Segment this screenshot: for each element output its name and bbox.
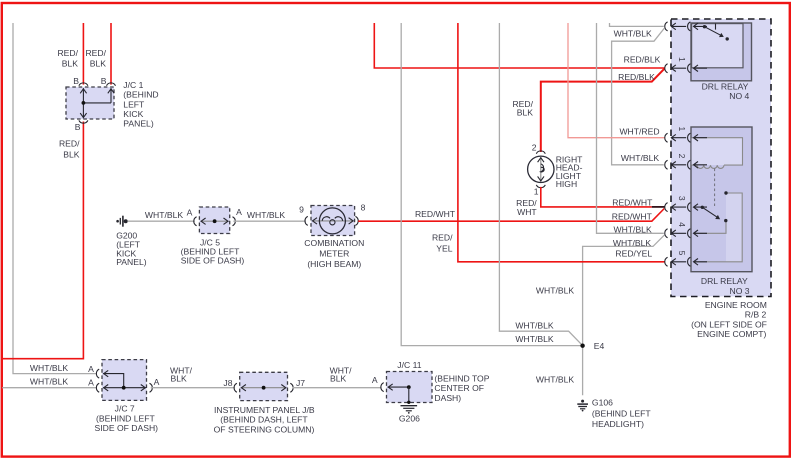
- junction connector J/C 7: [96, 360, 152, 401]
- wire RED/BLK page-top to J/C1 pin B1: [57, 23, 83, 86]
- svg-text:A: A: [372, 375, 378, 385]
- relay3 pin 3 connector: [665, 196, 707, 212]
- svg-text:WHT/BLK: WHT/BLK: [515, 334, 553, 344]
- svg-text:RED/WHT: RED/WHT: [415, 209, 456, 219]
- wire RED/WHT right headlight to relay3 pin3: [516, 187, 665, 217]
- svg-text:BLK: BLK: [63, 149, 80, 159]
- DRL relay NO 3 box: [691, 127, 752, 296]
- svg-text:PANEL): PANEL): [123, 119, 154, 129]
- svg-text:(BEHIND LEFT: (BEHIND LEFT: [592, 408, 651, 418]
- svg-text:WHT: WHT: [517, 207, 537, 217]
- wire WHT/BLK G200 to J/C5: [128, 208, 195, 222]
- ground G106: [577, 398, 651, 429]
- J/C 1 label: [123, 80, 158, 129]
- svg-text:1: 1: [677, 57, 687, 62]
- relay NO 3 pin4 branch: [694, 221, 727, 234]
- J/C 7 label: [95, 404, 159, 434]
- svg-text:WHT/BLK: WHT/BLK: [30, 363, 68, 373]
- wire WHT/BLK page-top to J/C7 pin A1: [13, 23, 97, 374]
- ground G200: [116, 216, 147, 268]
- relay NO 3 contact loop pin5: [694, 191, 743, 261]
- svg-text:A: A: [187, 208, 193, 218]
- svg-text:RED/WHT: RED/WHT: [612, 211, 653, 221]
- svg-text:4: 4: [677, 222, 687, 227]
- svg-text:1: 1: [534, 186, 539, 196]
- wire WHT/BLK J7 to J/C11: [292, 365, 381, 388]
- svg-text:G206: G206: [399, 414, 420, 424]
- svg-text:WHT/BLK: WHT/BLK: [145, 210, 183, 220]
- wire WHT/BLK relay4 top pin to relay3 pin2: [612, 28, 665, 164]
- svg-text:WHT/BLK: WHT/BLK: [614, 29, 652, 39]
- svg-text:HIGH: HIGH: [556, 179, 577, 189]
- svg-text:DASH): DASH): [434, 393, 461, 403]
- svg-text:RED/: RED/: [85, 48, 106, 58]
- node E4: [580, 341, 604, 351]
- svg-text:HEADLIGHT): HEADLIGHT): [592, 419, 644, 429]
- combination meter (high beam): [305, 202, 366, 235]
- relay4 top pin connector: [665, 22, 707, 31]
- svg-text:RED/BLK: RED/BLK: [624, 55, 661, 65]
- right headlight label: [556, 155, 583, 190]
- J/C 5 label: [181, 238, 245, 266]
- svg-text:J/C 11: J/C 11: [397, 360, 421, 370]
- svg-text:BLK: BLK: [171, 373, 188, 383]
- svg-text:5: 5: [677, 251, 687, 256]
- wire RED/YEL page-top to relay3 pin5: [432, 23, 665, 262]
- svg-text:YEL: YEL: [436, 243, 452, 253]
- svg-text:BLK: BLK: [90, 59, 107, 69]
- relay NO 3 switch arm: [701, 206, 728, 223]
- wire WHT/BLK page-top to relay3 pin4: [597, 23, 664, 234]
- svg-text:WHT/BLK: WHT/BLK: [536, 286, 574, 296]
- svg-text:(BEHIND: (BEHIND: [123, 90, 158, 100]
- junction connector J/C 5: [194, 207, 236, 234]
- svg-text:J/C 1: J/C 1: [123, 80, 143, 90]
- wire WHT/RED page-top to relay3 pin1: [568, 23, 665, 138]
- wire WHT/BLK page-top to E4 upper: [499, 23, 582, 346]
- svg-text:WHT/RED: WHT/RED: [619, 127, 659, 137]
- svg-text:(BEHIND DASH, LEFT: (BEHIND DASH, LEFT: [220, 415, 308, 425]
- svg-text:A: A: [88, 364, 94, 374]
- junction connector J/C 11: [381, 372, 432, 404]
- wire WHT/BLK J/C5 to combination meter: [233, 205, 305, 222]
- svg-text:(BEHIND LEFT: (BEHIND LEFT: [96, 413, 155, 423]
- svg-text:BLK: BLK: [517, 107, 534, 117]
- svg-text:J7: J7: [296, 378, 305, 388]
- svg-text:J8: J8: [223, 378, 232, 388]
- relay3 pin 1 connector: [665, 127, 707, 143]
- svg-text:OF STEERING COLUMN): OF STEERING COLUMN): [214, 425, 315, 435]
- wire WHT/BLK relay3 pin4 to E4 and ground G106: [536, 235, 664, 395]
- wire WHT/BLK left page edge to J/C7 pin A2: [2, 377, 97, 388]
- svg-text:WHT/BLK: WHT/BLK: [621, 153, 659, 163]
- svg-text:2: 2: [677, 154, 687, 159]
- svg-text:RED/BLK: RED/BLK: [618, 72, 655, 82]
- relay NO 3 link dashed line: [714, 169, 716, 207]
- svg-text:WHT/BLK: WHT/BLK: [515, 320, 553, 330]
- right headlight high bulb: [528, 142, 554, 196]
- svg-text:RED/: RED/: [432, 233, 453, 243]
- svg-text:A: A: [154, 377, 160, 387]
- relay3 pin 5 connector: [665, 251, 707, 267]
- engine room R/B 2 dashed box: [671, 19, 771, 297]
- svg-text:B: B: [75, 122, 81, 132]
- svg-text:(ON LEFT SIDE OF: (ON LEFT SIDE OF: [691, 319, 767, 329]
- svg-text:RED/WHT: RED/WHT: [612, 197, 653, 207]
- svg-text:NO 4: NO 4: [729, 91, 749, 101]
- svg-text:RED/: RED/: [57, 48, 78, 58]
- svg-text:(BEHIND TOP: (BEHIND TOP: [434, 374, 489, 384]
- relay3 pin 4 connector: [665, 222, 707, 238]
- combination meter label: [304, 238, 364, 269]
- wire WHT/BLK page-top to E4: [401, 23, 582, 346]
- svg-text:(HIGH BEAM): (HIGH BEAM): [307, 259, 361, 269]
- J/C 11 label: [397, 360, 489, 403]
- svg-text:DRL RELAY: DRL RELAY: [701, 276, 748, 286]
- wire RED/BLK page-top to relay4 pin1 upper: [374, 23, 664, 68]
- svg-text:SIDE OF DASH): SIDE OF DASH): [181, 256, 245, 266]
- relay NO 3 coil loop: [692, 138, 743, 169]
- svg-text:ENGINE ROOM: ENGINE ROOM: [705, 300, 767, 310]
- svg-text:COMBINATION: COMBINATION: [304, 238, 364, 248]
- svg-text:R/B 2: R/B 2: [745, 310, 767, 320]
- relay4 pin 1 connector: [665, 57, 707, 73]
- svg-text:NO 3: NO 3: [730, 286, 750, 296]
- svg-text:DRL RELAY: DRL RELAY: [702, 81, 749, 91]
- svg-text:KICK: KICK: [123, 109, 143, 119]
- instrument panel J/B: [234, 372, 293, 400]
- wire WHT/BLK J/C7 to J8: [151, 365, 235, 388]
- svg-text:BLK: BLK: [62, 59, 79, 69]
- DRL relay NO 4 box: [691, 23, 752, 101]
- svg-text:RED/: RED/: [59, 139, 80, 149]
- svg-text:WHT/BLK: WHT/BLK: [536, 375, 574, 385]
- svg-text:ENGINE COMPT): ENGINE COMPT): [697, 329, 766, 339]
- svg-text:2: 2: [532, 142, 537, 152]
- svg-text:J/C 7: J/C 7: [115, 404, 135, 414]
- svg-text:SIDE OF DASH): SIDE OF DASH): [95, 423, 159, 433]
- svg-text:B: B: [101, 76, 107, 86]
- svg-text:WHT/BLK: WHT/BLK: [613, 238, 651, 248]
- wire RED/BLK page-top to J/C1 pin B2: [85, 23, 111, 86]
- svg-text:WHT/BLK: WHT/BLK: [247, 210, 285, 220]
- svg-text:A: A: [236, 207, 242, 217]
- svg-text:1: 1: [677, 127, 687, 132]
- wire RED/WHT combination meter to relay3 pin3: [358, 209, 664, 222]
- wire RED/BLK right headlight to relay4 pin1 lower: [512, 69, 664, 152]
- svg-text:RED/YEL: RED/YEL: [615, 248, 652, 258]
- engine room R/B 2 text: [691, 300, 767, 339]
- svg-text:INSTRUMENT PANEL J/B: INSTRUMENT PANEL J/B: [214, 405, 315, 415]
- svg-text:PANEL): PANEL): [116, 257, 147, 267]
- svg-text:9: 9: [299, 205, 304, 215]
- junction connector J/C 1: [66, 83, 116, 123]
- svg-text:3: 3: [677, 196, 687, 201]
- svg-text:LEFT: LEFT: [123, 99, 145, 109]
- svg-text:E4: E4: [594, 341, 605, 351]
- svg-text:CENTER OF: CENTER OF: [434, 383, 484, 393]
- instrument panel J/B label: [214, 405, 315, 435]
- wire WHT/BLK page-top to relay4 top pin: [610, 23, 664, 39]
- svg-text:WHT/BLK: WHT/BLK: [30, 377, 68, 387]
- svg-text:B: B: [73, 76, 79, 86]
- ground G206: [399, 406, 420, 424]
- svg-text:METER: METER: [319, 249, 349, 259]
- relay NO 4 switch contact: [703, 23, 729, 40]
- svg-text:A: A: [88, 378, 94, 388]
- svg-text:WHT/BLK: WHT/BLK: [613, 224, 651, 234]
- svg-text:BLK: BLK: [330, 373, 347, 383]
- relay3 pin 2 connector: [665, 154, 707, 170]
- svg-text:8: 8: [361, 202, 366, 212]
- wire RED/BLK J/C1 out to left page edge: [2, 122, 83, 359]
- svg-text:G106: G106: [592, 398, 613, 408]
